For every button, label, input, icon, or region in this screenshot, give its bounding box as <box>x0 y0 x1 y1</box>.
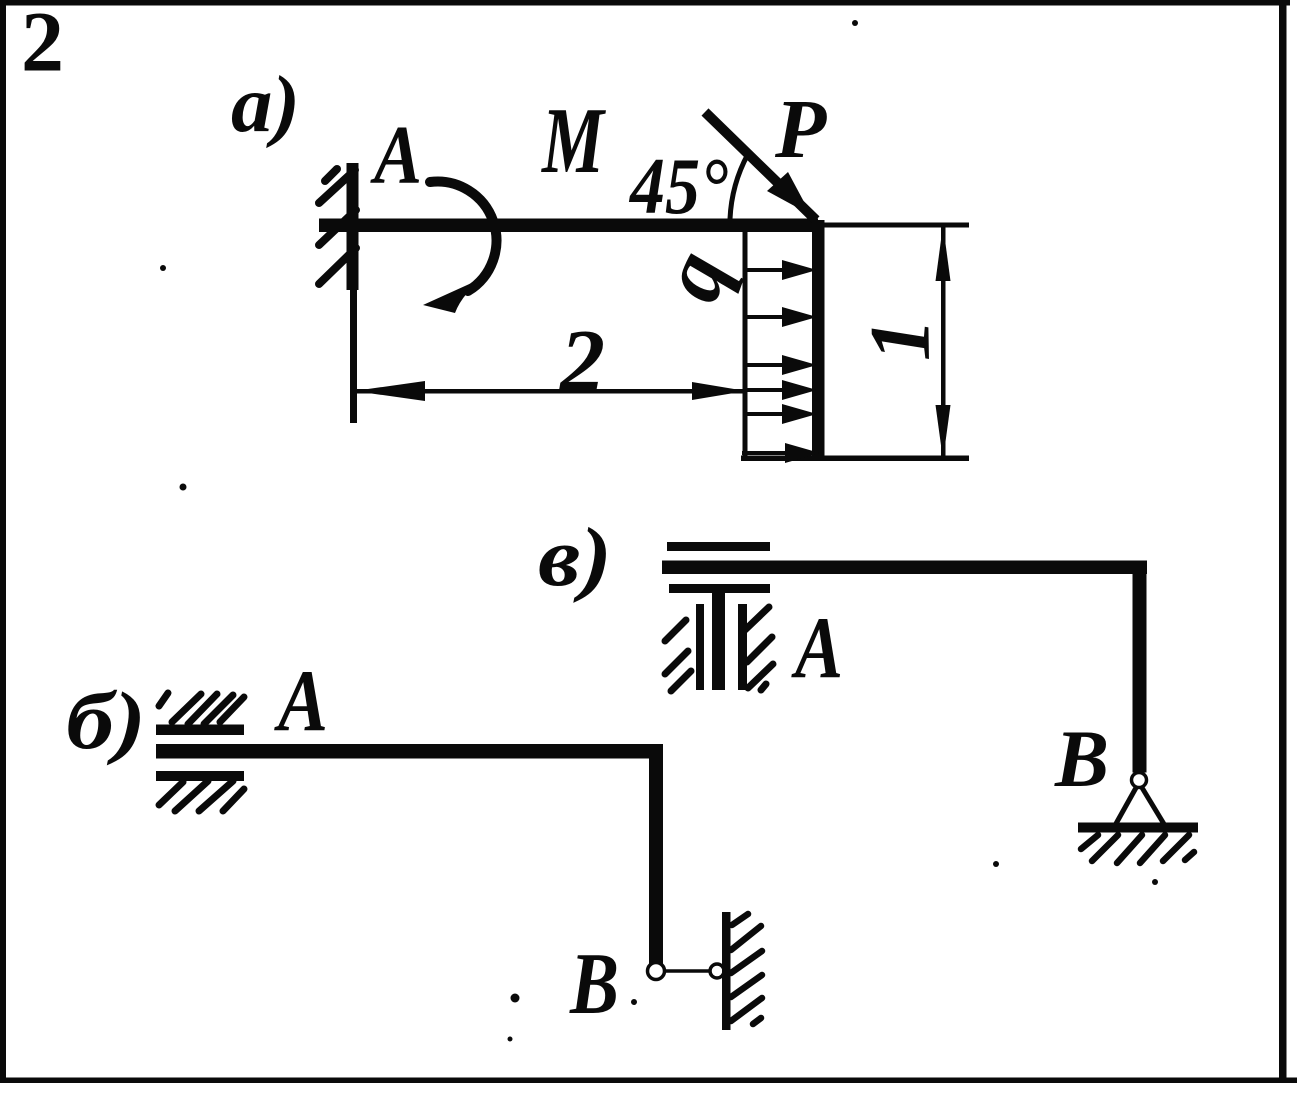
support A right slot line (fig v) <box>738 604 747 690</box>
svg-text:M: M <box>541 89 607 193</box>
pin circle at B (fig v) <box>1132 773 1147 788</box>
frame top <box>0 0 1290 6</box>
dimension 2 line <box>356 389 745 394</box>
support A left slot line (fig v) <box>696 604 704 690</box>
beam horizontal (fig v) <box>662 561 1147 575</box>
link bar (fig b) <box>665 969 711 973</box>
distributed load bottom line <box>741 456 969 462</box>
ground hatching (fig v) <box>1081 835 1194 863</box>
distributed load q arrows <box>742 260 820 463</box>
wall hatching at B (fig b) <box>731 914 762 1024</box>
svg-text:B: B <box>1054 713 1109 804</box>
force P line <box>705 112 816 220</box>
support A left hatching (fig v) <box>665 620 691 691</box>
svg-text:2: 2 <box>558 312 605 411</box>
fixed support wall A (fig a) <box>347 163 359 423</box>
ground line at B (fig v) <box>1078 823 1198 833</box>
svg-text:2: 2 <box>21 0 64 90</box>
moment M arc <box>430 182 496 291</box>
frame bottom <box>0 1078 1297 1084</box>
support A bottom hatching (fig b) <box>159 781 244 811</box>
svg-text:б): б) <box>66 675 146 766</box>
frame left <box>0 0 6 1083</box>
support A top bar (fig b) <box>156 725 244 736</box>
svg-text:A: A <box>791 600 843 697</box>
wall at B (fig b) <box>722 912 731 1030</box>
distributed load left edge line <box>743 232 748 459</box>
frame right <box>1279 0 1287 1083</box>
support A right hatching (fig v) <box>745 607 773 690</box>
pin triangle (fig v) <box>1113 786 1167 829</box>
wall hatching (fig a) <box>319 169 356 284</box>
beam vertical (fig b) <box>649 745 663 964</box>
dimension 2 right arrowhead <box>692 382 746 400</box>
svg-text:P: P <box>774 83 827 176</box>
support A bottom bar (fig b) <box>156 771 244 781</box>
dimension 1 line <box>941 226 946 459</box>
top extension line (fig a) <box>822 223 969 228</box>
dimension 2 left arrowhead <box>354 381 425 401</box>
link pin circle 2 (fig b) <box>710 964 724 978</box>
support A pillar (fig v) <box>712 593 725 690</box>
beam (fig a) <box>319 219 818 233</box>
svg-text:в): в) <box>538 511 612 604</box>
svg-text:a): a) <box>231 61 300 149</box>
beam horizontal (fig b) <box>156 744 663 759</box>
angle arc 45 <box>730 154 748 219</box>
support A top bar (fig v) <box>667 542 770 551</box>
support A top hatching (fig b) <box>159 693 244 724</box>
svg-text:45°: 45° <box>628 143 728 231</box>
dimension 1 top arrowhead <box>936 225 951 281</box>
link pin circle 1 (fig b) <box>648 963 665 980</box>
svg-text:A: A <box>274 653 328 750</box>
end column (fig a) <box>812 220 825 459</box>
svg-text:B: B <box>569 936 619 1033</box>
svg-text:1: 1 <box>851 318 948 363</box>
scan specks <box>160 20 1158 1042</box>
dimension 1 bottom arrowhead <box>936 405 951 460</box>
svg-text:A: A <box>370 109 422 202</box>
moment M arrowhead <box>423 276 487 313</box>
beam vertical (fig v) <box>1133 561 1147 773</box>
force P arrowhead <box>767 172 811 215</box>
support A bottom bar (fig v) <box>669 584 770 593</box>
